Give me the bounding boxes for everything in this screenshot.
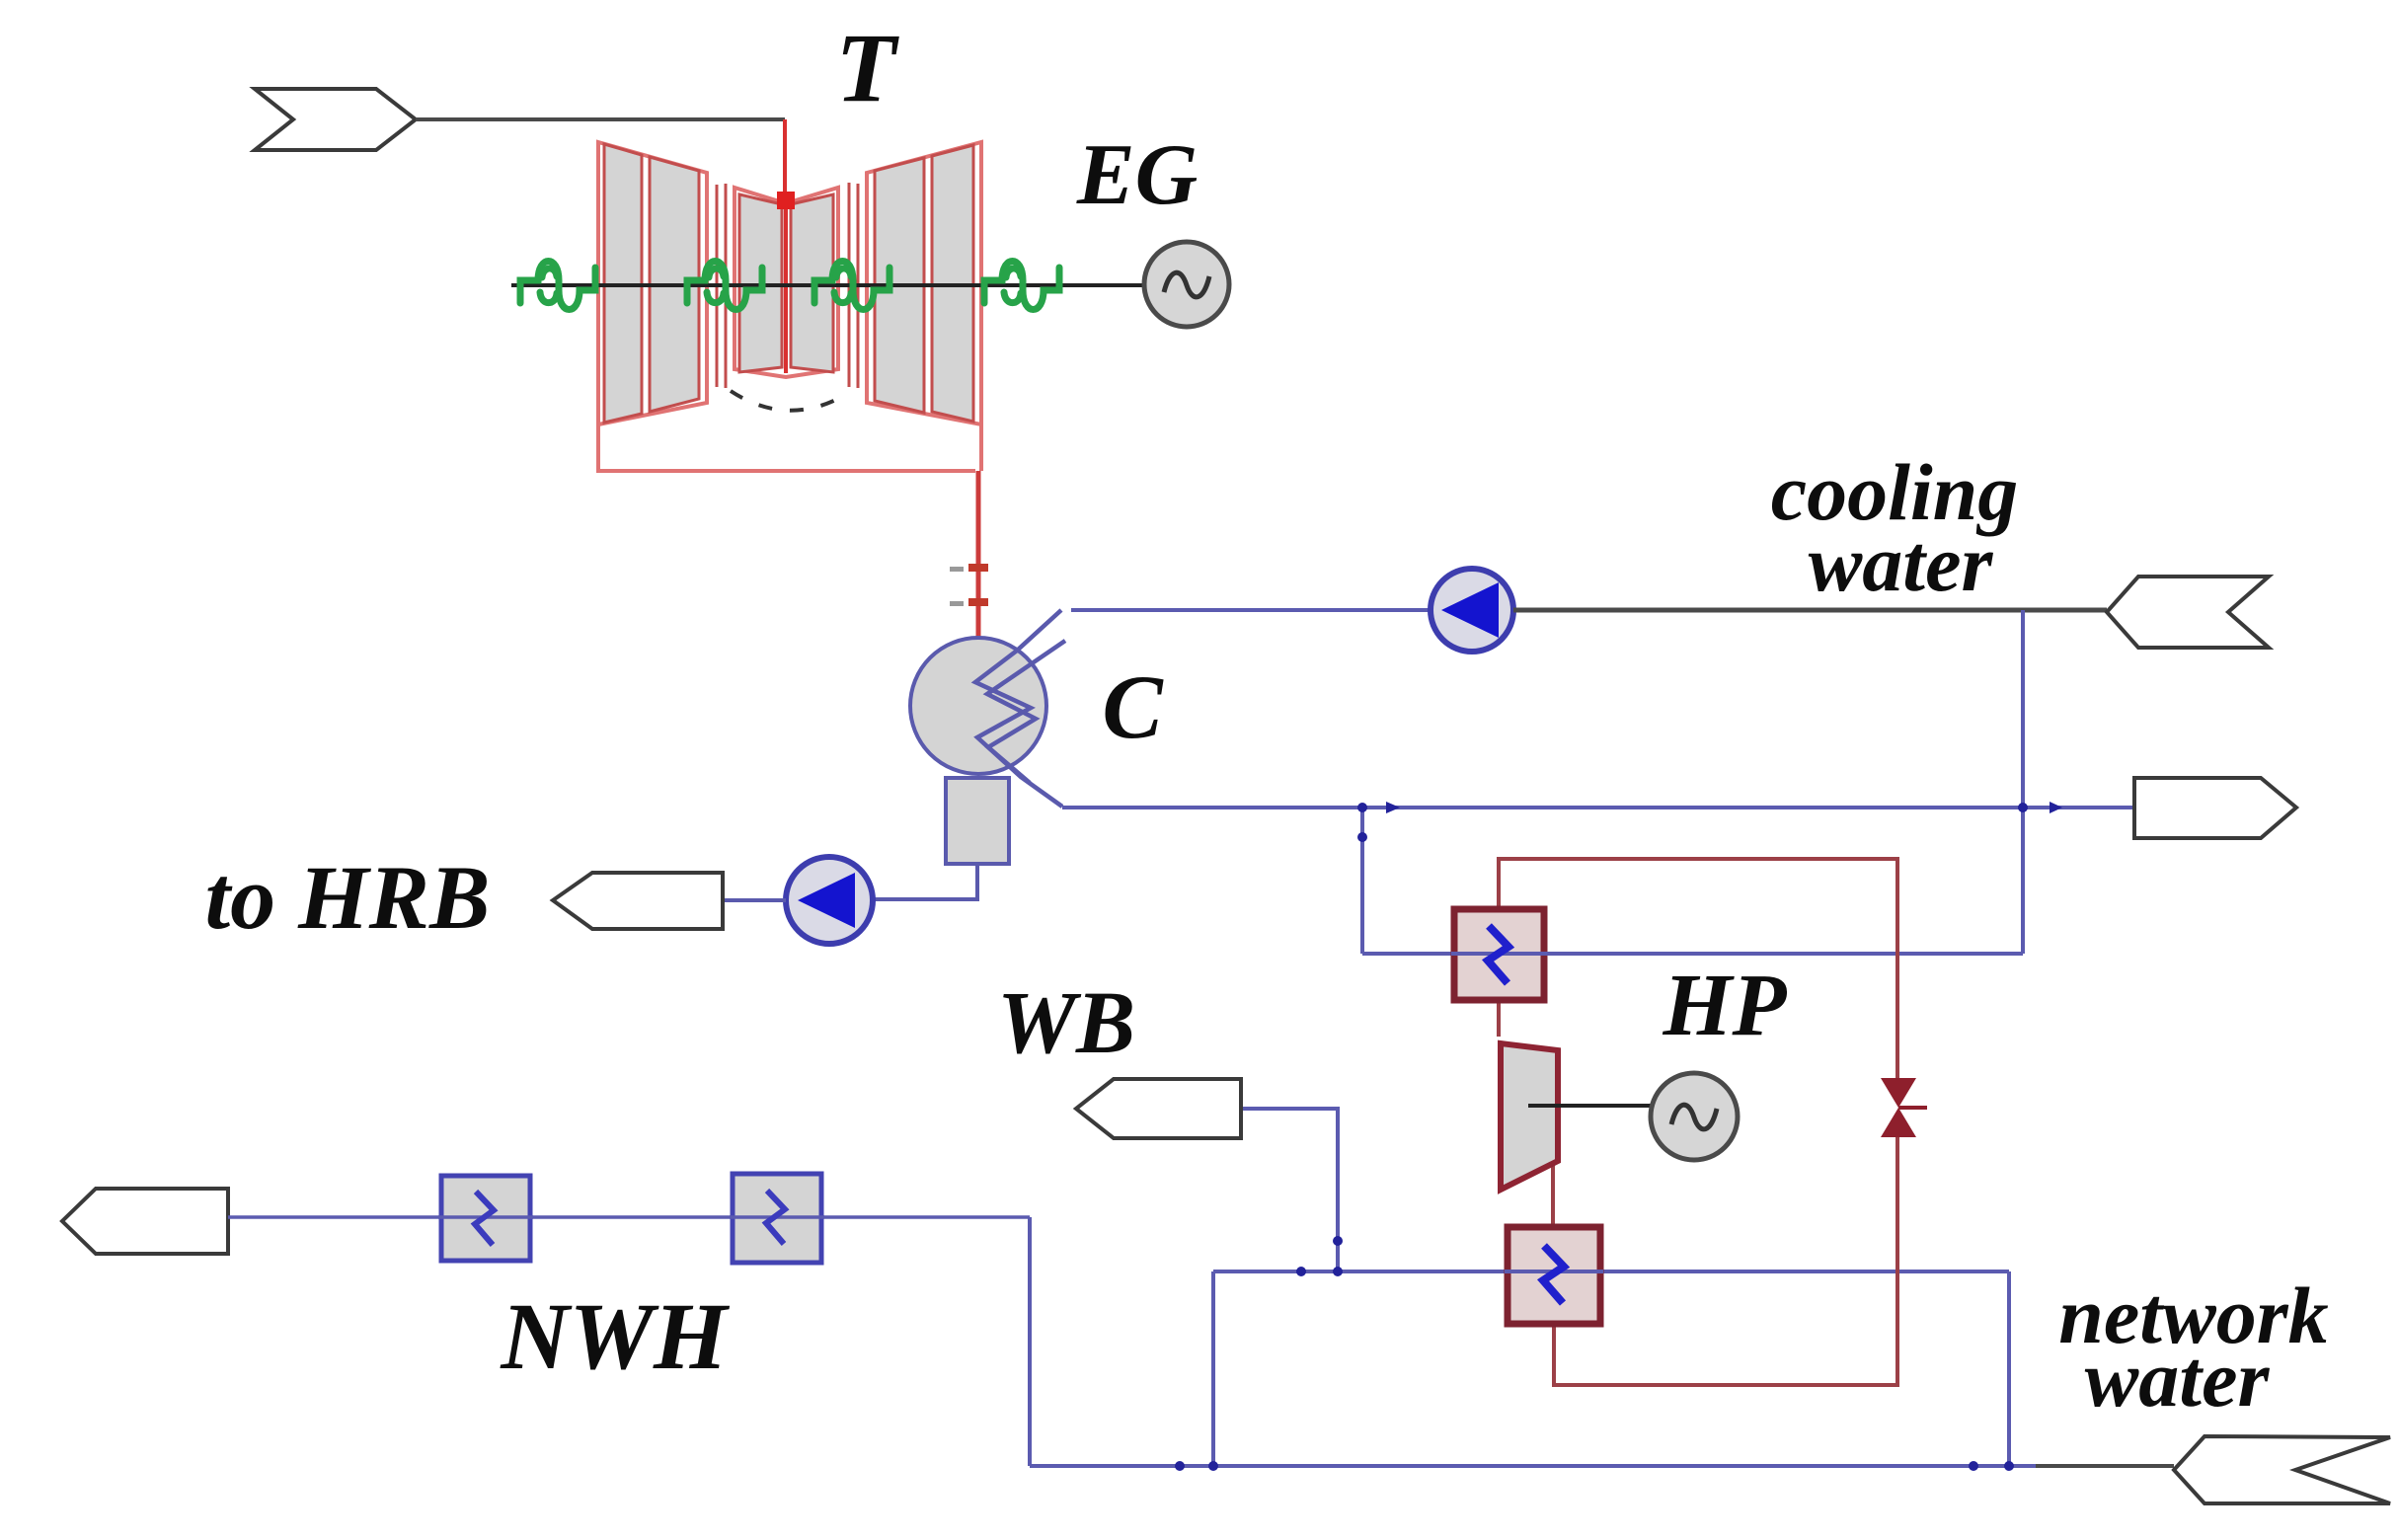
wire evaporator to compressor	[1497, 1000, 1501, 1037]
svg-text:NWH: NWH	[500, 1283, 731, 1389]
wire compressor shaft	[1528, 1104, 1655, 1108]
condenser hotwell	[946, 778, 1009, 864]
compressor	[1501, 1043, 1558, 1190]
condensate pump	[786, 857, 873, 944]
node dots network line	[1296, 1267, 1306, 1276]
wire NWH drop	[1028, 1217, 1032, 1466]
svg-text:HP: HP	[1663, 957, 1788, 1054]
node dots bottom line	[1175, 1461, 1185, 1471]
wire drop left	[1211, 1271, 1215, 1466]
wire WB line	[1241, 1109, 1338, 1271]
turbine shaft gland lines right	[848, 183, 851, 387]
wire network water heated line	[1213, 1270, 2009, 1273]
network water inlet arrow	[2174, 1436, 2390, 1503]
NWH outlet arrow	[62, 1189, 228, 1254]
exhaust tick 2	[950, 601, 964, 606]
turbine exhaust pipe	[976, 471, 981, 641]
extraction dashed line	[731, 391, 847, 411]
steam inlet arrow	[255, 89, 416, 150]
svg-text:water: water	[2085, 1334, 2271, 1424]
NWH heater 1	[438, 1176, 533, 1261]
turbine casing lines	[598, 424, 975, 471]
wire cooling water supply	[1513, 608, 2107, 613]
cooling water inlet arrow	[2107, 577, 2269, 648]
svg-text:WB: WB	[997, 974, 1135, 1072]
coupling 1	[520, 262, 595, 310]
WB outlet arrow	[1076, 1079, 1241, 1138]
wire riser to cooling supply	[2021, 610, 2025, 954]
wire condenser return	[1062, 806, 2134, 809]
svg-text:water: water	[1809, 518, 1994, 608]
turbine shaft	[511, 283, 1147, 287]
wire condenser to cooling pump	[1071, 608, 1431, 612]
turbine shaft gland lines left	[716, 185, 719, 387]
HP motor	[1651, 1073, 1738, 1160]
wire evaporator water line	[1362, 952, 2023, 956]
NWH heater 2	[730, 1174, 824, 1263]
coupling 2	[687, 262, 762, 310]
HP refrigerant loop top	[1499, 859, 1897, 1078]
wire steam supply horizontal	[416, 117, 785, 121]
wire branch down to evaporator	[1360, 808, 1364, 954]
wire pump to HRB arrow	[723, 898, 786, 902]
coupling 3	[814, 262, 890, 310]
wire hotwell to pump	[874, 864, 977, 899]
svg-text:C: C	[1102, 656, 1164, 757]
warm water outlet arrow	[2134, 778, 2296, 838]
wire steam supply drop (red)	[783, 119, 787, 201]
wire network water bottom line	[1030, 1464, 2036, 1468]
wire drop right	[2007, 1271, 2011, 1466]
exhaust tick 1	[950, 567, 964, 572]
condenser C	[910, 610, 1065, 807]
wire compressor to HP condenser	[1551, 1161, 1555, 1227]
turbine T right LP section	[867, 142, 981, 424]
to HRB arrow	[553, 873, 723, 929]
evaporator heat exchanger	[1451, 909, 1548, 1000]
wire network water gray stub	[2036, 1464, 2174, 1468]
generator EG	[1144, 242, 1229, 327]
wire NWH line	[228, 1215, 1030, 1219]
turbine T middle HP section	[735, 188, 838, 377]
HP condenser heat exchanger	[1505, 1227, 1603, 1324]
svg-text:T: T	[835, 13, 899, 122]
node junction dots	[1357, 803, 1367, 812]
expansion valve	[1881, 1078, 1927, 1137]
svg-text:to HRB: to HRB	[205, 847, 491, 948]
HP refrigerant loop bottom	[1554, 1137, 1897, 1385]
svg-text:EG: EG	[1076, 127, 1198, 223]
turbine T left LP section	[598, 142, 707, 424]
coupling 4	[984, 262, 1059, 310]
cooling water pump	[1431, 569, 1513, 652]
